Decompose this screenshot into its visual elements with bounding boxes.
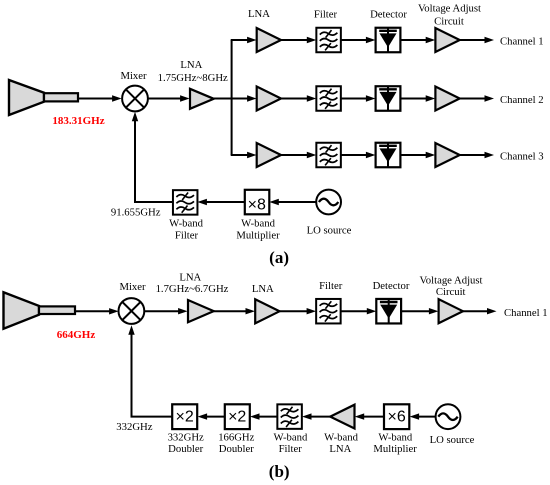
multiplier x2 box 332GHz doubler	[172, 404, 197, 429]
label W-band Multiplier	[373, 432, 417, 456]
op-amp VAC1 voltage adjust	[435, 28, 459, 52]
wire LO to x6 multiplier	[410, 413, 436, 419]
wire W-band filter to mixer	[132, 112, 173, 202]
svg-text:W-band: W-band	[241, 218, 275, 230]
filter FL4	[316, 299, 341, 324]
wire branch 3 to LNA3	[231, 152, 257, 158]
wire detector to VAC (b)	[401, 308, 438, 314]
wire VAC3 to Channel 3	[460, 152, 494, 158]
wire x6 to W-band LNA	[355, 413, 384, 419]
mixer MIX1	[122, 86, 148, 112]
svg-text:91.655GHz: 91.655GHz	[111, 207, 161, 219]
wire detector2 to VAC2	[400, 95, 435, 101]
op-amp LNA5	[255, 299, 279, 323]
wire branch 2 to LNA2	[232, 95, 257, 101]
svg-text:Multiplier: Multiplier	[373, 443, 417, 455]
op-amp W-band LNA (points left)	[330, 405, 354, 429]
filter W-band FLW2	[277, 404, 302, 429]
svg-text:W-band: W-band	[378, 432, 412, 444]
horn antenna ANT1	[9, 80, 78, 115]
filter W-band FLW	[173, 190, 198, 215]
wire LNA4 to LNA5	[214, 308, 255, 314]
svg-text:Channel 3: Channel 3	[500, 150, 544, 162]
filter FL2	[316, 86, 341, 111]
svg-text:×6: ×6	[387, 409, 405, 426]
svg-text:183.31GHz: 183.31GHz	[52, 115, 104, 127]
detector D1	[376, 28, 401, 53]
svg-text:Channel 2: Channel 2	[500, 94, 544, 106]
wire W-band LNA to W-band filter	[302, 413, 330, 419]
label 332GHz Doubler	[168, 432, 204, 456]
svg-text:LNA: LNA	[252, 283, 274, 295]
svg-text:Filter: Filter	[314, 9, 338, 21]
wire LNA3 to filter3	[281, 152, 316, 158]
wire LO to x8 multiplier	[269, 199, 316, 205]
wire VAC4 to Channel 1	[463, 308, 497, 314]
wire 166GHz doubler to 332GHz doubler	[198, 413, 225, 419]
label Voltage Adjust Circuit	[418, 3, 481, 28]
label W-band Filter	[169, 218, 203, 242]
LO source G1	[316, 190, 341, 215]
svg-text:Voltage Adjust: Voltage Adjust	[418, 3, 481, 15]
svg-text:LNA: LNA	[248, 8, 270, 20]
wire horn to mixer (b)	[75, 308, 119, 314]
svg-text:W-band: W-band	[169, 218, 203, 230]
svg-text:Circuit: Circuit	[436, 286, 466, 298]
svg-text:332GHz: 332GHz	[116, 421, 152, 433]
wire filter to detector (b)	[341, 308, 377, 314]
wire detector3 to VAC3	[400, 152, 435, 158]
wire filter3 to detector3	[341, 152, 376, 158]
svg-text:Channel 1: Channel 1	[504, 307, 548, 319]
multiplier x8 box	[245, 190, 269, 215]
wire LNA1 to filter1	[281, 37, 316, 43]
op-amp LNA4	[188, 300, 214, 322]
label Voltage Adjust Circuit	[419, 274, 482, 298]
wire horn to mixer	[78, 95, 122, 101]
horn antenna ANT2	[4, 292, 76, 328]
svg-text:LO source: LO source	[430, 434, 475, 446]
svg-text:1.75GHz~8GHz: 1.75GHz~8GHz	[158, 72, 228, 84]
svg-text:Filter: Filter	[319, 280, 343, 292]
wire x8 to W-band filter	[197, 199, 244, 205]
svg-text:1.7GHz~6.7GHz: 1.7GHz~6.7GHz	[156, 283, 229, 295]
svg-text:W-band: W-band	[324, 432, 358, 444]
wire mixer to LNA	[148, 95, 190, 101]
svg-text:Mixer: Mixer	[120, 70, 147, 82]
op-amp VAC3 voltage adjust	[435, 143, 459, 167]
svg-text:664GHz: 664GHz	[57, 329, 96, 341]
multiplier x6 box	[384, 404, 409, 429]
svg-text:Doubler: Doubler	[168, 443, 203, 455]
multiplier x2 box 166GHz doubler	[225, 404, 250, 429]
svg-text:166GHz: 166GHz	[218, 432, 254, 444]
svg-text:332GHz: 332GHz	[168, 432, 204, 444]
label W-band Filter	[273, 432, 307, 456]
svg-text:Circuit: Circuit	[434, 16, 464, 28]
mixer MIX2	[118, 298, 144, 324]
wire W-band filter to x2 doubler 166GHz	[250, 413, 277, 419]
svg-text:Channel 1: Channel 1	[500, 35, 544, 47]
op-amp LNA1	[257, 28, 281, 52]
op-amp VAC2 voltage adjust	[435, 87, 459, 111]
op-amp LNA main (a)	[190, 89, 214, 109]
detector D2	[376, 86, 401, 111]
wire branch 1 to LNA1	[231, 37, 257, 43]
op-amp LNA2	[257, 87, 281, 111]
LO source G2	[436, 404, 461, 429]
op-amp LNA3	[257, 143, 281, 167]
svg-text:Filter: Filter	[279, 443, 303, 455]
svg-text:LNA: LNA	[180, 59, 202, 71]
svg-text:(b): (b)	[269, 462, 290, 481]
wire LNA to split node	[214, 98, 232, 100]
svg-text:LNA: LNA	[179, 271, 201, 283]
wire VAC1 to Channel 1	[460, 37, 494, 43]
svg-text:Detector: Detector	[373, 280, 410, 292]
detector D4	[376, 299, 401, 324]
op-amp VAC4 voltage adjust	[439, 299, 463, 323]
svg-text:×2: ×2	[228, 409, 246, 426]
label 166GHz Doubler	[218, 432, 254, 456]
label LNA 1.75GHz~8GHz	[158, 59, 228, 84]
wire filter1 to detector1	[341, 37, 376, 43]
svg-text:Mixer: Mixer	[119, 281, 146, 293]
svg-text:LNA: LNA	[329, 443, 351, 455]
wire LNA2 to filter2	[281, 95, 316, 101]
svg-text:(a): (a)	[269, 248, 289, 267]
label LNA 1.7GHz~6.7GHz	[156, 271, 229, 295]
detector D3	[376, 143, 401, 168]
svg-text:×2: ×2	[175, 409, 193, 426]
svg-text:Voltage Adjust: Voltage Adjust	[419, 274, 482, 286]
svg-text:LO source: LO source	[307, 225, 352, 237]
svg-text:Multiplier: Multiplier	[236, 230, 280, 242]
filter FL1	[316, 28, 341, 53]
wire VAC2 to Channel 2	[460, 95, 494, 101]
wire filter2 to detector2	[341, 95, 376, 101]
wire mixer to LNA (b)	[145, 308, 188, 314]
svg-text:×8: ×8	[248, 196, 266, 213]
svg-text:W-band: W-band	[273, 432, 307, 444]
filter FL3	[316, 143, 341, 168]
wire detector1 to VAC1	[400, 37, 435, 43]
wire 332GHz doubler to mixer (b)	[128, 325, 172, 416]
label W-band LNA	[324, 432, 358, 456]
label W-band Multiplier	[236, 218, 280, 242]
wire split vertical bus	[231, 40, 233, 155]
wire LNA5 to filter (b)	[280, 308, 317, 314]
svg-text:Doubler: Doubler	[219, 443, 254, 455]
svg-text:Detector: Detector	[370, 9, 407, 21]
svg-text:Filter: Filter	[175, 230, 199, 242]
